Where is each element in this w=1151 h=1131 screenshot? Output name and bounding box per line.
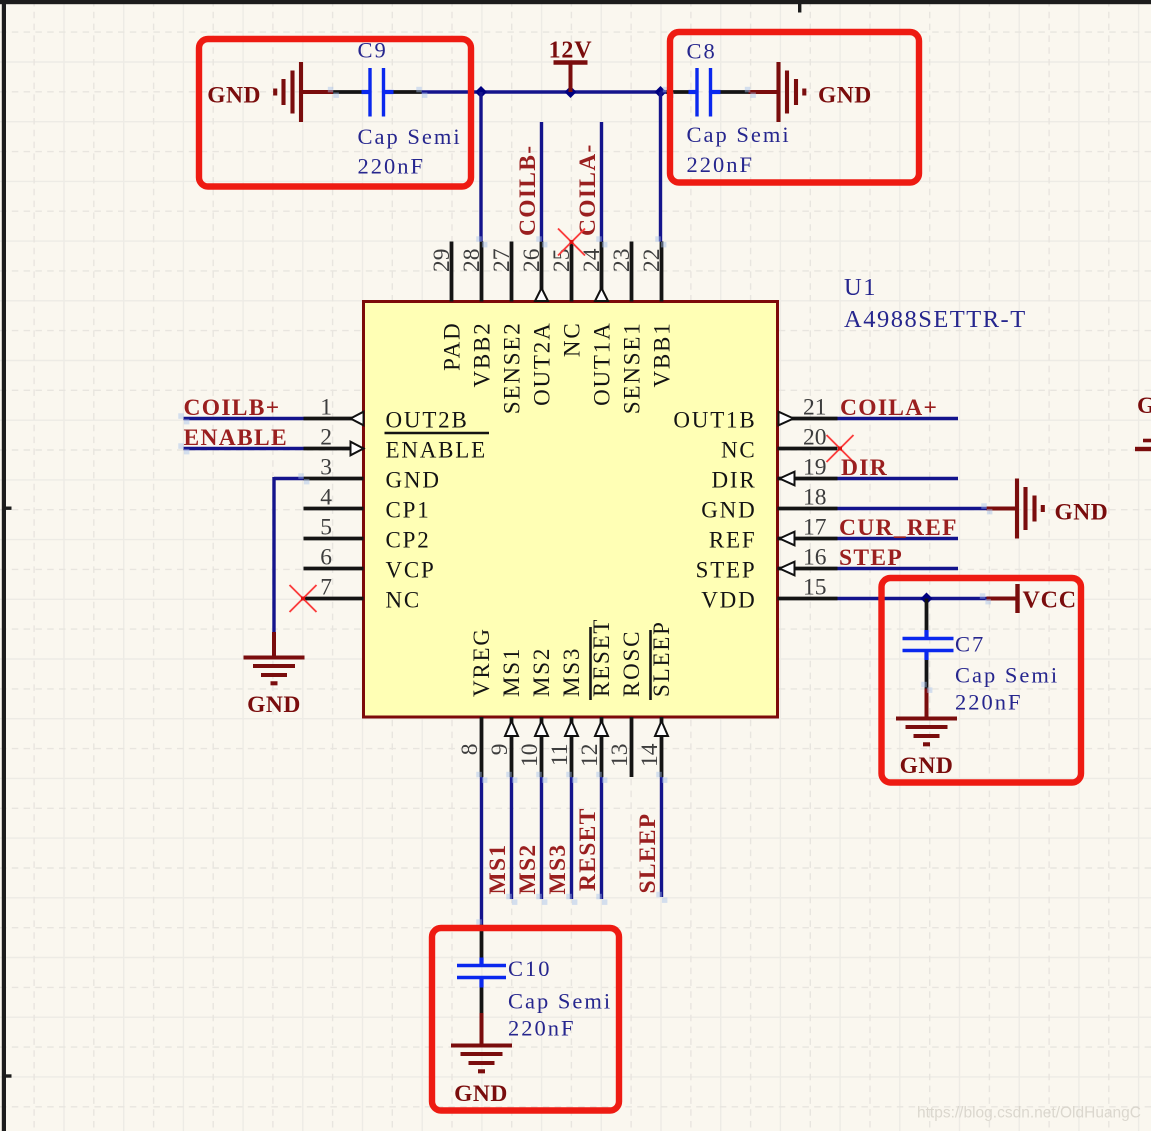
- svg-text:ENABLE: ENABLE: [386, 438, 488, 463]
- U1 pin 15 (VDD) right: [701, 575, 837, 613]
- net label ENABLE: [184, 425, 288, 451]
- U1 pin 25 (NC) top: [549, 242, 585, 358]
- C9 value label Cap Semi: [358, 124, 462, 149]
- ground GND (right of C8): [749, 62, 872, 122]
- svg-text:220nF: 220nF: [687, 152, 755, 177]
- no-ERC marker pin 7: [290, 585, 317, 612]
- svg-text:GND: GND: [207, 83, 261, 109]
- svg-text:24: 24: [579, 248, 605, 272]
- svg-text:SLEEP: SLEEP: [649, 620, 674, 697]
- U1 pin 14 (SLEEP) bottom: [637, 620, 674, 777]
- C7 value label Cap Semi: [955, 663, 1059, 688]
- svg-text:8: 8: [457, 744, 483, 756]
- net label STEP: [839, 545, 903, 571]
- C7 value label 220nF: [955, 690, 1023, 715]
- U1 pin 23 (SENSE1) top: [609, 242, 645, 415]
- U1 pin 16 (STEP) right: [696, 545, 838, 583]
- svg-text:GND: GND: [1055, 500, 1109, 526]
- svg-text:28: 28: [459, 249, 485, 273]
- net label COILB+: [184, 395, 281, 421]
- U1 pin 22 (VBB1) top: [639, 242, 675, 388]
- U1 value label A4988SETTR-T: [844, 306, 1027, 333]
- svg-text:CP2: CP2: [386, 528, 431, 553]
- power port VCC: [987, 584, 1077, 614]
- wire RESET (pin drop): [600, 777, 603, 899]
- U1 pin 1 (OUT2B) left: [304, 395, 469, 433]
- U1 pin 5 (CP2) left: [304, 515, 431, 553]
- C8 value label Cap Semi: [687, 122, 791, 147]
- svg-text:GND: GND: [900, 753, 954, 779]
- svg-text:1: 1: [320, 395, 332, 421]
- svg-text:21: 21: [803, 395, 827, 421]
- svg-text:NC: NC: [560, 322, 585, 358]
- net label COILA+: [840, 395, 938, 421]
- wire VREG (pin 8 to C10): [480, 777, 483, 925]
- svg-text:PAD: PAD: [440, 322, 465, 371]
- svg-text:SLEEP: SLEEP: [635, 813, 661, 894]
- svg-text:COILB+: COILB+: [184, 395, 281, 421]
- net label COILA-: [575, 143, 601, 236]
- C9 designator: [358, 38, 388, 63]
- svg-text:COILA-: COILA-: [575, 143, 601, 236]
- U1 pin 28 (VBB2) top: [459, 242, 495, 388]
- svg-text:5: 5: [320, 515, 332, 541]
- wire COILB+ (to pin 1): [184, 417, 304, 420]
- svg-text:MS1: MS1: [499, 647, 524, 697]
- ground GND (pin 3): [244, 632, 305, 718]
- svg-text:https://blog.csdn.net/OldHuang: https://blog.csdn.net/OldHuangC: [917, 1105, 1141, 1122]
- svg-text:GND: GND: [454, 1081, 508, 1107]
- svg-text:VCC: VCC: [1023, 588, 1077, 614]
- U1 designator: [844, 274, 877, 301]
- ground GND (below C10): [451, 1013, 512, 1107]
- svg-text:220nF: 220nF: [508, 1016, 576, 1041]
- ground GND (pin 18): [987, 479, 1109, 539]
- svg-text:220nF: 220nF: [955, 690, 1023, 715]
- svg-text:SENSE2: SENSE2: [500, 322, 525, 415]
- wire DIR (from pin 19): [838, 477, 959, 480]
- svg-text:26: 26: [519, 248, 545, 272]
- svg-text:COILB-: COILB-: [515, 145, 541, 236]
- junction at C7 / VDD: [921, 593, 933, 605]
- svg-text:Cap Semi: Cap Semi: [955, 663, 1059, 688]
- U1 pin 20 (NC) right: [721, 425, 838, 463]
- U1 pin 19 (DIR) right: [711, 455, 837, 493]
- power port 12V: [549, 38, 593, 93]
- wire STEP (from pin 16): [838, 567, 959, 570]
- wire ENABLE (to pin 2): [184, 447, 304, 450]
- highlight box around C7: [882, 578, 1082, 783]
- highlight box around C8: [670, 32, 919, 183]
- U1 pin 3 (GND) left: [304, 455, 441, 493]
- svg-text:GND: GND: [247, 692, 301, 718]
- svg-text:12V: 12V: [549, 38, 593, 64]
- net label COILB-: [515, 145, 541, 236]
- svg-text:12: 12: [577, 744, 603, 768]
- svg-text:GND: GND: [386, 468, 441, 493]
- svg-text:4: 4: [320, 485, 332, 511]
- net label MS1: [485, 844, 511, 895]
- svg-text:ENABLE: ENABLE: [184, 425, 288, 451]
- svg-text:RESET: RESET: [589, 618, 614, 697]
- no-ERC marker pin 25: [558, 229, 585, 256]
- svg-text:NC: NC: [721, 438, 757, 463]
- svg-text:GND: GND: [701, 498, 756, 523]
- wire SLEEP (pin drop): [660, 777, 663, 897]
- svg-text:9: 9: [487, 744, 513, 756]
- svg-text:17: 17: [803, 515, 827, 541]
- svg-text:OUT2A: OUT2A: [530, 322, 555, 406]
- U1 ENABLE overline: [385, 432, 490, 435]
- highlight box around C10: [432, 928, 619, 1111]
- C8 value label 220nF: [687, 152, 755, 177]
- svg-text:MS3: MS3: [559, 647, 584, 697]
- U1 pin 26 (OUT2A) top: [519, 242, 555, 406]
- U1 pin 8 (VREG) bottom: [457, 627, 494, 777]
- svg-text:C8: C8: [687, 39, 717, 64]
- wire pin 18 to ground: [838, 507, 987, 510]
- svg-text:OUT2B: OUT2B: [386, 408, 469, 433]
- junction at C8 / VBB1 drop: [655, 86, 667, 98]
- U1 pin 18 (GND) right: [701, 485, 837, 523]
- svg-text:U1: U1: [844, 274, 877, 301]
- U1 pin 27 (SENSE2) top: [489, 242, 525, 415]
- svg-text:18: 18: [803, 485, 827, 511]
- C10 value label 220nF: [508, 1016, 576, 1041]
- C9 value label 220nF: [358, 154, 426, 179]
- wire VDD to VCC (pin 15): [838, 597, 987, 600]
- wire MS3 (pin drop): [570, 777, 573, 899]
- svg-text:A4988SETTR-T: A4988SETTR-T: [844, 306, 1027, 333]
- partial ground symbol (clipped at sheet edge): [1135, 441, 1151, 450]
- svg-text:OUT1A: OUT1A: [590, 322, 615, 406]
- capacitor C7: [903, 599, 954, 689]
- svg-text:STEP: STEP: [839, 545, 903, 571]
- svg-text:29: 29: [429, 249, 455, 273]
- svg-text:GND: GND: [1137, 393, 1151, 419]
- wire pin 3 to ground: [274, 477, 304, 632]
- svg-text:Cap Semi: Cap Semi: [508, 989, 612, 1014]
- wire 12V rail: [422, 90, 671, 93]
- svg-text:15: 15: [803, 575, 827, 601]
- wire MS2 (pin drop): [540, 777, 543, 899]
- partial net label G (clipped at sheet edge): [1137, 393, 1151, 419]
- highlight box around C9: [199, 39, 471, 187]
- svg-text:COILA+: COILA+: [840, 395, 938, 421]
- svg-text:Cap Semi: Cap Semi: [358, 124, 462, 149]
- net label SLEEP: [635, 813, 661, 894]
- svg-text:22: 22: [639, 249, 665, 273]
- svg-text:19: 19: [803, 455, 827, 481]
- svg-text:ROSC: ROSC: [619, 630, 644, 697]
- U1 pin 4 (CP1) left: [304, 485, 431, 523]
- svg-text:3: 3: [320, 455, 332, 481]
- svg-text:NC: NC: [386, 588, 422, 613]
- svg-text:MS3: MS3: [545, 844, 571, 895]
- C10 value label Cap Semi: [508, 989, 612, 1014]
- svg-text:OUT1B: OUT1B: [673, 408, 756, 433]
- svg-text:13: 13: [607, 744, 633, 768]
- C7 designator: [955, 632, 985, 657]
- svg-text:GND: GND: [818, 83, 872, 109]
- svg-text:STEP: STEP: [696, 558, 757, 583]
- svg-text:20: 20: [803, 425, 827, 451]
- wire COILB- (to pin 26): [540, 122, 543, 242]
- capacitor C9: [333, 68, 422, 117]
- C10 designator: [508, 956, 552, 981]
- net label RESET: [575, 807, 601, 891]
- wire CUR_REF (from pin 17): [838, 537, 959, 540]
- svg-text:MS2: MS2: [529, 647, 554, 697]
- U1 pin 7 (NC) left: [304, 575, 422, 613]
- svg-text:7: 7: [320, 575, 332, 601]
- wire VBB2 drop (rail to pin 28): [479, 92, 482, 242]
- svg-text:Cap Semi: Cap Semi: [687, 122, 791, 147]
- svg-text:11: 11: [547, 744, 573, 767]
- U1 pin 24 (OUT1A) top: [579, 242, 615, 406]
- svg-text:REF: REF: [709, 528, 757, 553]
- ground GND (below C7): [896, 689, 957, 780]
- capacitor C8: [661, 68, 749, 117]
- capacitor C10: [457, 925, 506, 1014]
- svg-text:VBB1: VBB1: [650, 322, 675, 388]
- svg-text:C10: C10: [508, 956, 552, 981]
- svg-text:16: 16: [803, 545, 827, 571]
- svg-text:DIR: DIR: [711, 468, 756, 493]
- wire COILA- (to pin 24): [600, 122, 603, 242]
- svg-text:MS1: MS1: [485, 844, 511, 895]
- wire VBB1 drop (rail to pin 22): [659, 92, 662, 242]
- U1 pin 21 (OUT1B) right: [673, 395, 837, 433]
- C8 designator: [687, 39, 717, 64]
- svg-text:VBB2: VBB2: [470, 322, 495, 388]
- U1 pin 10 (MS2) bottom: [517, 647, 554, 777]
- no-ERC marker pin 20: [827, 435, 854, 462]
- U1 pin 11 (MS3) bottom: [547, 647, 584, 777]
- svg-text:23: 23: [609, 249, 635, 273]
- watermark: [917, 1105, 1141, 1122]
- U1 pin 2 (ENABLE) left: [304, 425, 488, 463]
- junction at 12V stem: [565, 86, 577, 98]
- ground GND (left of C9): [207, 62, 333, 122]
- wire COILA+ (from pin 21): [838, 417, 959, 420]
- U1 pin 29 (PAD) top: [429, 242, 465, 371]
- svg-text:C7: C7: [955, 632, 985, 657]
- node attach marks: [178, 87, 992, 931]
- net label DIR: [841, 455, 888, 481]
- svg-text:2: 2: [320, 425, 332, 451]
- net label MS3: [545, 844, 571, 895]
- svg-text:10: 10: [517, 744, 543, 768]
- svg-text:27: 27: [489, 248, 515, 272]
- op-amp U1 body (A4988 driver): [364, 302, 778, 718]
- svg-text:VREG: VREG: [469, 627, 494, 697]
- svg-text:VDD: VDD: [701, 588, 756, 613]
- svg-text:VCP: VCP: [386, 558, 436, 583]
- U1 RESET overline: [589, 627, 592, 700]
- svg-text:RESET: RESET: [575, 807, 601, 891]
- U1 pin 6 (VCP) left: [304, 545, 436, 583]
- svg-text:CUR_REF: CUR_REF: [839, 515, 958, 541]
- net label MS2: [515, 844, 541, 895]
- svg-text:MS2: MS2: [515, 844, 541, 895]
- junction at C9 / VBB2 drop: [475, 86, 487, 98]
- U1 pin 12 (RESET) bottom: [577, 618, 614, 777]
- wire MS1 (pin drop): [510, 777, 513, 899]
- svg-text:SENSE1: SENSE1: [620, 322, 645, 415]
- svg-text:220nF: 220nF: [358, 154, 426, 179]
- svg-text:DIR: DIR: [841, 455, 888, 481]
- svg-text:14: 14: [637, 743, 663, 767]
- U1 pin 13 (ROSC) bottom: [607, 630, 644, 777]
- U1 SLEEP overline: [649, 630, 652, 700]
- U1 pin 17 (REF) right: [709, 515, 838, 553]
- net label CUR_REF: [839, 515, 958, 541]
- svg-text:CP1: CP1: [386, 498, 431, 523]
- svg-text:6: 6: [320, 545, 332, 571]
- U1 pin 9 (MS1) bottom: [487, 647, 524, 777]
